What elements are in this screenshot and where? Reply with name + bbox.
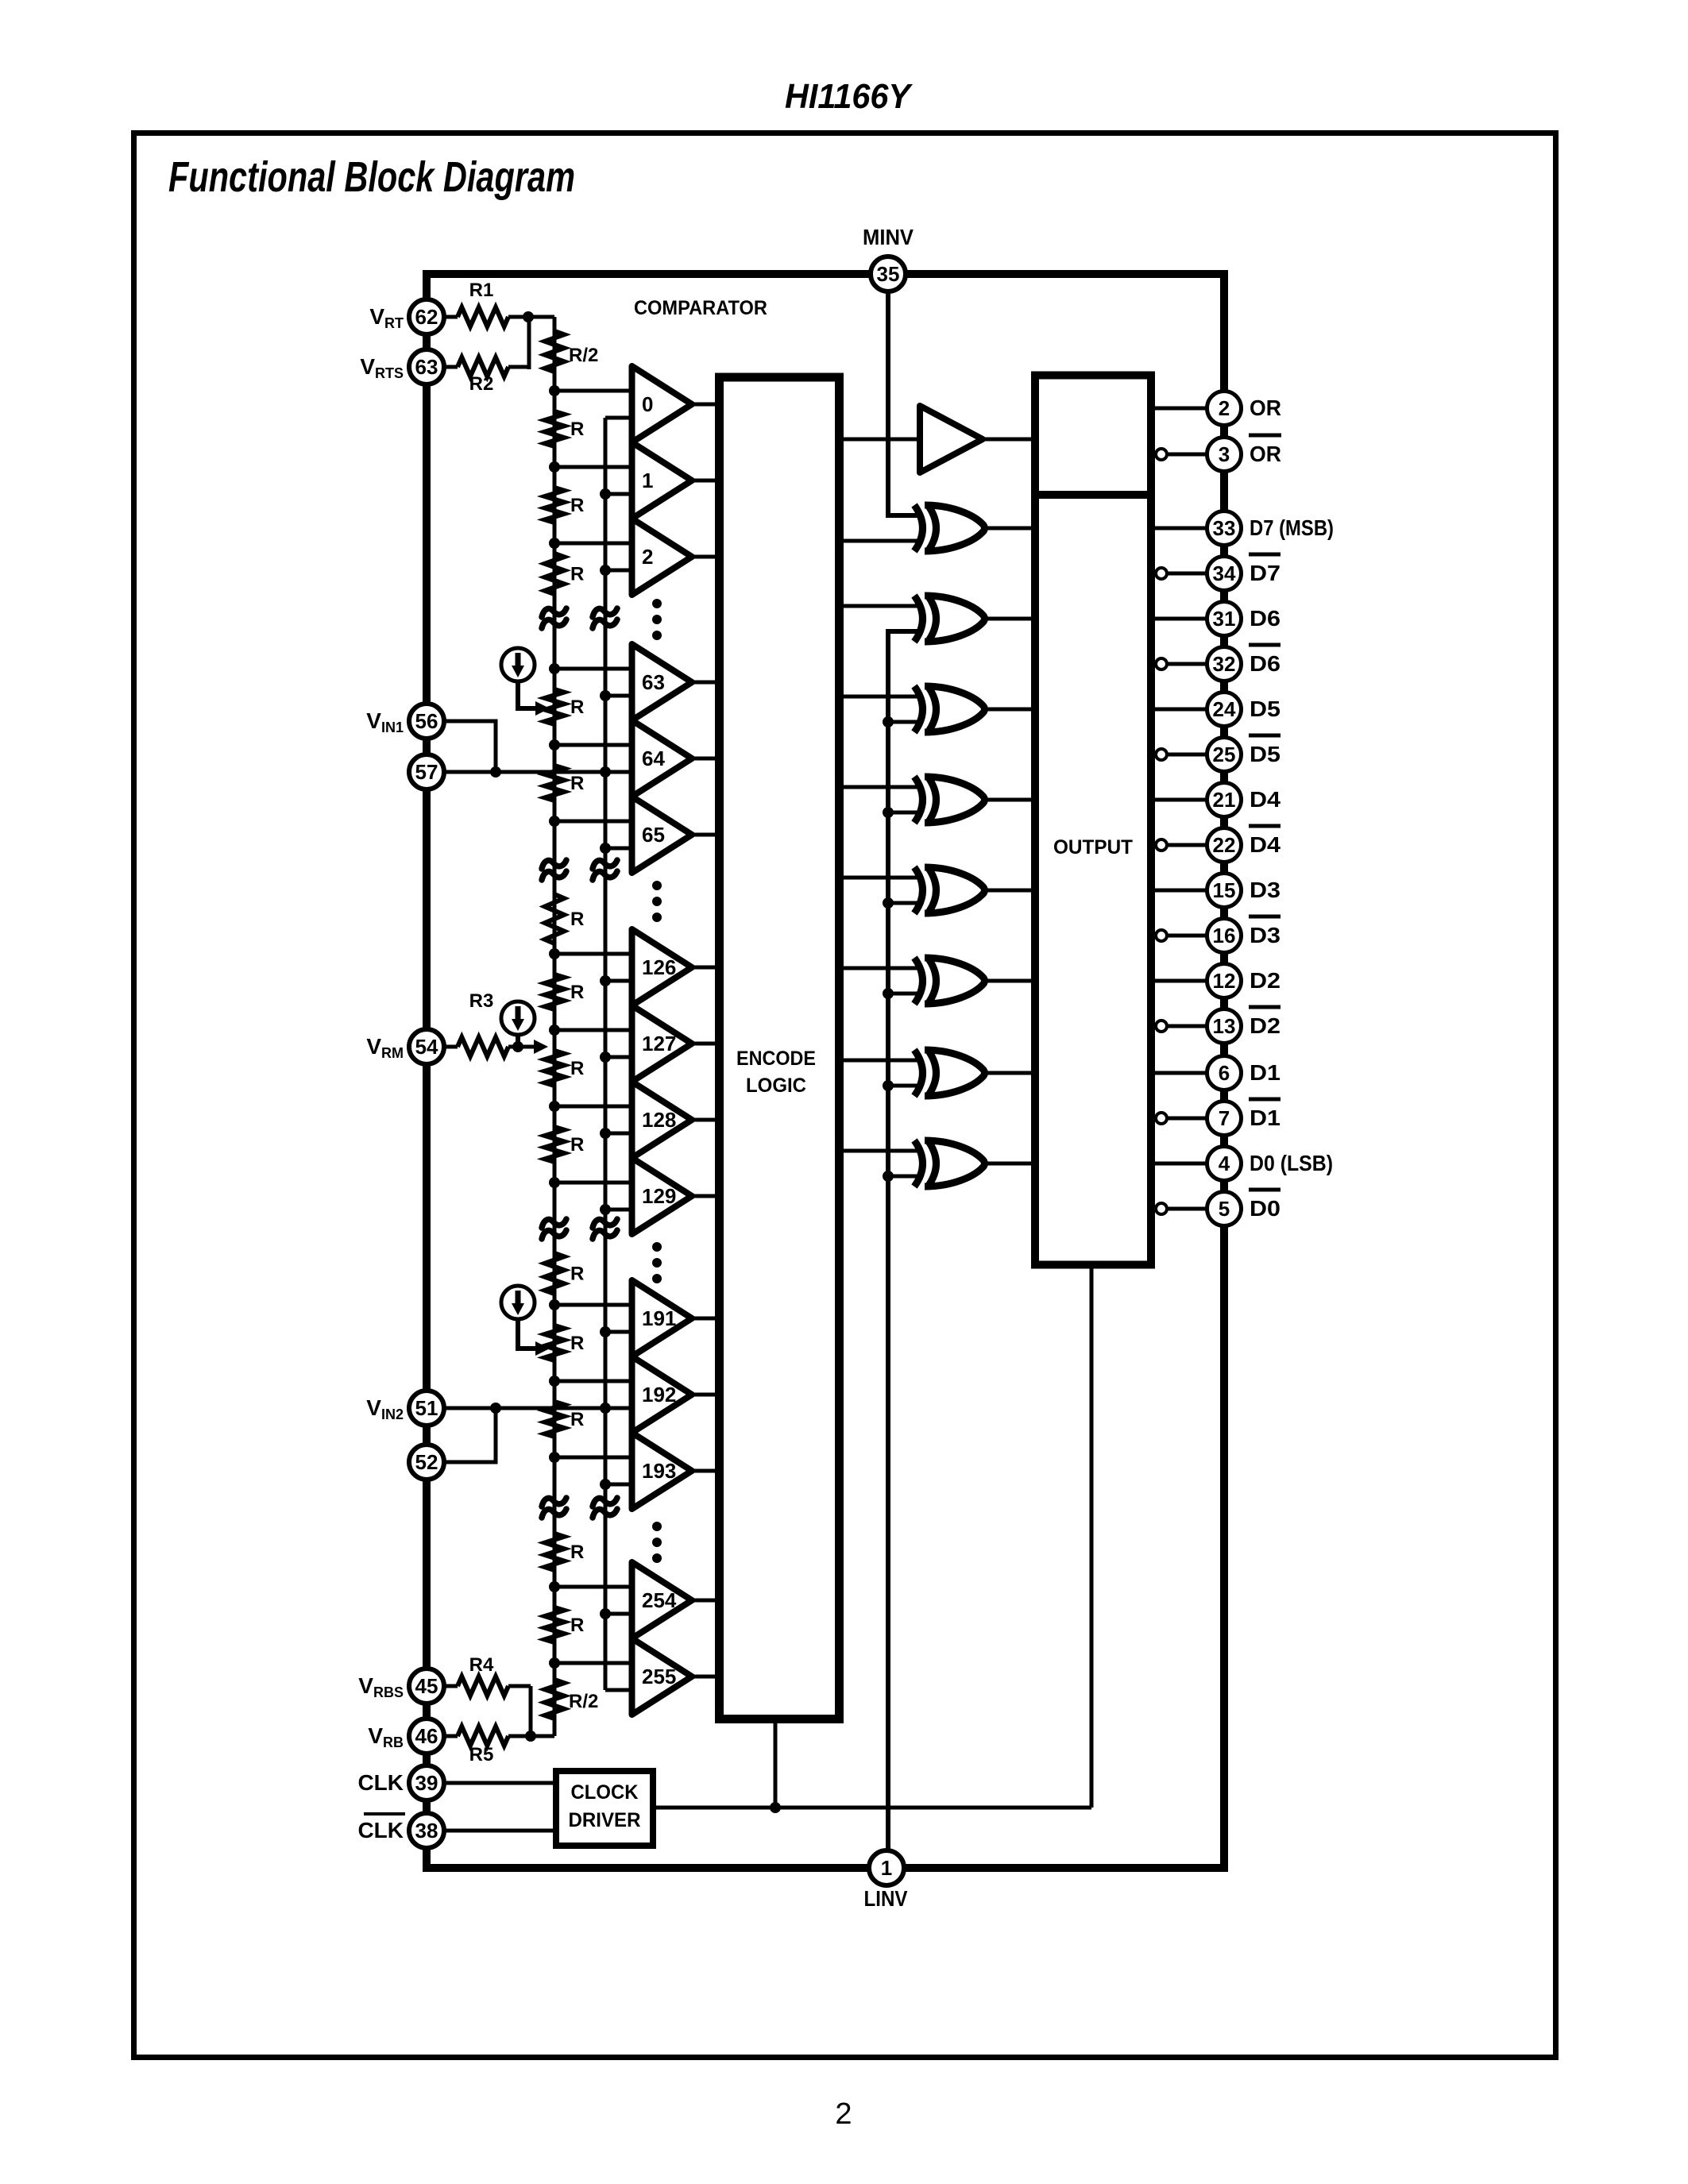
svg-text:33: 33	[1213, 516, 1236, 540]
block ENCODE LOGIC	[720, 377, 840, 1719]
svg-text:D1: D1	[1250, 1106, 1280, 1130]
comparator group bar	[629, 1562, 635, 1715]
wire comparator 2 output	[692, 555, 717, 559]
svg-text:16: 16	[1213, 924, 1236, 947]
ellipsis dots between comparator groups	[652, 599, 662, 608]
wire comparator 254 output	[692, 1599, 717, 1603]
svg-text:34: 34	[1213, 561, 1236, 585]
node LINV tap	[883, 897, 894, 909]
svg-text:25: 25	[1213, 743, 1236, 766]
svg-text:D1: D1	[1250, 1060, 1280, 1085]
resistor R (ladder)	[545, 411, 564, 446]
wire junction to ladder bottom	[531, 1734, 554, 1738]
pin 57	[409, 754, 444, 789]
pin 4 D0 (LSB)	[1207, 1147, 1242, 1181]
svg-text:57: 57	[415, 760, 438, 784]
node ladder tap	[549, 1452, 560, 1463]
svg-text:D4: D4	[1250, 787, 1280, 812]
node Vin tap	[600, 843, 611, 854]
wire ladder tap to comparator	[554, 1661, 632, 1665]
wire: ladder spine	[553, 317, 557, 1736]
wire MINV to XOR D7	[888, 291, 921, 515]
svg-text:LOGIC: LOGIC	[746, 1075, 806, 1097]
pin 12 D2	[1207, 964, 1242, 998]
comparator group bar	[629, 644, 635, 873]
wire: Vin bus	[604, 418, 608, 1690]
wire comparator 0 output	[692, 403, 717, 407]
svg-text:54: 54	[415, 1035, 438, 1059]
wire ladder tap to comparator	[554, 1585, 632, 1589]
svg-text:R5: R5	[469, 1744, 494, 1765]
node ladder tap	[549, 1101, 560, 1112]
block OUTPUT	[1035, 495, 1151, 1265]
pin 3 OR bar	[1207, 438, 1242, 472]
wire ladder tap to comparator	[554, 1181, 632, 1185]
wire inputs XOR D2	[840, 967, 922, 970]
svg-text:ENCODE: ENCODE	[736, 1048, 816, 1070]
wire pin 57 to Vin bus	[445, 770, 605, 774]
comparator group bar	[629, 1280, 635, 1509]
wire encode to OR buffer	[840, 438, 921, 442]
inverter bubble pin 13	[1156, 1021, 1167, 1032]
svg-text:OR: OR	[1250, 442, 1281, 466]
svg-text:255: 255	[642, 1665, 676, 1688]
pin 63 VRTS	[409, 349, 444, 384]
svg-text:OR: OR	[1250, 396, 1281, 420]
pin 33 D7 (MSB)	[1207, 511, 1242, 546]
wire output to pin 12	[1151, 979, 1207, 983]
inverter bubble pin 22	[1156, 839, 1167, 851]
block OR output latch	[1035, 376, 1151, 496]
node Vin tap	[600, 975, 611, 986]
wiper arrow at VRM	[534, 1040, 548, 1054]
svg-text:45: 45	[415, 1674, 438, 1698]
node ladder tap	[549, 948, 560, 959]
xor gate D4	[914, 777, 923, 823]
svg-text:R1: R1	[469, 280, 494, 301]
comparator 191	[632, 1280, 693, 1356]
inverter bubble pin 25	[1156, 749, 1167, 760]
wire comparator 255 output	[692, 1675, 717, 1679]
wire comparator 192 output	[692, 1393, 717, 1397]
node Vin tap	[600, 1128, 611, 1139]
svg-text:191: 191	[642, 1306, 676, 1330]
svg-text:31: 31	[1213, 607, 1236, 631]
wire Vin bus to comparator	[605, 1406, 632, 1410]
inverter bubble pin 16	[1156, 930, 1167, 941]
comparator 126	[632, 929, 693, 1005]
node ladder tap	[549, 816, 560, 827]
svg-text:D2: D2	[1250, 1013, 1280, 1038]
buffer OR driver	[920, 406, 983, 473]
page border frame	[134, 133, 1556, 2058]
svg-text:65: 65	[642, 823, 665, 847]
node ladder tap	[549, 385, 560, 396]
svg-text:R: R	[570, 419, 584, 440]
pin 31 D6	[1207, 602, 1242, 636]
resistor R (ladder)	[545, 1127, 564, 1162]
comparator 63	[632, 644, 693, 720]
pin 15 D3	[1207, 874, 1242, 908]
wire Vin bus to comparator	[605, 1330, 632, 1334]
svg-text:64: 64	[642, 747, 665, 770]
node: R4/R5 junction	[525, 1731, 536, 1742]
pin 39 CLK	[409, 1765, 444, 1800]
wire ladder tap to comparator	[554, 1379, 632, 1383]
svg-text:2: 2	[1219, 396, 1230, 420]
resistor R (ladder)	[545, 1534, 564, 1570]
xor gate D2	[914, 958, 923, 1004]
comparator 127	[632, 1005, 693, 1082]
svg-text:35: 35	[877, 262, 900, 286]
wire ladder tap to comparator	[554, 1303, 632, 1307]
wire XOR D2 output	[987, 979, 1035, 983]
svg-text:R: R	[570, 696, 584, 718]
svg-text:D7 (MSB): D7 (MSB)	[1250, 515, 1334, 540]
wire Vin bus to comparator	[605, 1688, 632, 1692]
node ladder tap	[549, 1299, 560, 1310]
wire Vin bus to comparator	[605, 694, 632, 698]
wire R2 to junction	[527, 317, 531, 369]
pin 7 D1 bar	[1207, 1102, 1242, 1136]
pin 16 D3 bar	[1207, 919, 1242, 953]
svg-text:6: 6	[1219, 1061, 1230, 1085]
svg-text:3: 3	[1219, 442, 1230, 466]
wire ladder tap to comparator	[554, 743, 632, 747]
svg-text:R3: R3	[469, 990, 494, 1012]
svg-text:R4: R4	[469, 1654, 494, 1676]
svg-text:D3: D3	[1250, 923, 1280, 947]
pin 46 VRB	[409, 1719, 444, 1754]
wire ladder tap to comparator	[554, 1028, 632, 1032]
break symbol on ladder	[542, 1219, 566, 1228]
inverter bubble pin 7	[1156, 1113, 1167, 1124]
svg-text:52: 52	[415, 1450, 438, 1474]
wire pin 38 to clock driver	[445, 1829, 556, 1833]
wire: top supply bus	[423, 270, 1228, 278]
wire ladder tap to comparator	[554, 820, 632, 824]
wire ladder tap to comparator	[554, 1105, 632, 1109]
break symbol on ladder	[542, 860, 566, 869]
pin 54 VRM	[409, 1029, 444, 1064]
inverter bubble pin 34	[1156, 568, 1167, 579]
node LINV tap	[883, 807, 894, 818]
wire ladder tap to comparator	[554, 667, 632, 671]
wire inputs XOR D5	[840, 695, 922, 699]
inverter bubble pin 3	[1156, 449, 1167, 460]
break symbol on Vin bus	[593, 608, 617, 617]
xor gate D3	[914, 867, 923, 913]
svg-text:24: 24	[1213, 697, 1236, 721]
node ladder tap	[549, 538, 560, 549]
xor gate D0	[914, 1140, 923, 1187]
resistor R (ladder)	[545, 894, 564, 943]
svg-text:R: R	[570, 909, 584, 930]
wire output to pin 2	[1151, 407, 1207, 411]
wire Vin bus to comparator	[605, 1612, 632, 1616]
current source 3	[501, 1286, 535, 1319]
pin 32 D6 bar	[1207, 647, 1242, 681]
current source 2 (VRM)	[501, 1001, 535, 1035]
wire output to pin 6	[1151, 1071, 1207, 1075]
wire XOR D3 output	[987, 889, 1035, 893]
wire Vin bus to comparator	[605, 770, 632, 774]
comparator 255	[632, 1638, 693, 1715]
wire Vin bus to comparator	[605, 416, 632, 420]
svg-text:D3: D3	[1250, 878, 1280, 902]
node ladder tap	[549, 1177, 560, 1188]
wire ladder tap to comparator	[554, 952, 632, 956]
wire inputs XOR D1	[840, 1059, 922, 1063]
wire: left input bus	[423, 270, 431, 1872]
resistor R (ladder)	[545, 488, 564, 523]
svg-text:63: 63	[415, 355, 438, 379]
wire XOR D7 output	[987, 527, 1035, 531]
comparator group bar	[629, 366, 635, 595]
wire clock to encode logic	[774, 1719, 778, 1808]
wire Vin bus to comparator	[605, 1483, 632, 1487]
node Vin2 join	[490, 1403, 501, 1414]
pin 62 VRT	[409, 299, 444, 334]
node ladder tap	[549, 1581, 560, 1592]
break symbol on Vin bus	[593, 1498, 617, 1507]
svg-text:254: 254	[642, 1588, 677, 1612]
wire output to pin 31	[1151, 617, 1207, 621]
svg-text:R: R	[570, 1542, 584, 1563]
svg-text:OUTPUT: OUTPUT	[1053, 836, 1133, 859]
node Vin tap	[600, 1326, 611, 1337]
wire comparator 1 output	[692, 479, 717, 483]
wire inputs XOR D4	[840, 785, 922, 789]
pin 2 OR	[1207, 392, 1242, 426]
svg-text:R2: R2	[469, 373, 494, 395]
svg-text:R: R	[570, 982, 584, 1003]
svg-text:21: 21	[1213, 788, 1236, 812]
wire Vin bus to comparator	[605, 1208, 632, 1212]
svg-text:D2: D2	[1250, 968, 1280, 993]
comparator 1	[632, 442, 693, 519]
resistor R5	[445, 1734, 458, 1738]
svg-text:56: 56	[415, 709, 438, 733]
wire comparator 65 output	[692, 833, 717, 837]
node clock branch	[770, 1802, 781, 1813]
wire inputs XOR D0	[840, 1149, 922, 1153]
comparator 64	[632, 720, 693, 797]
node Vin tap	[600, 1204, 611, 1215]
resistor R/2 bottom	[545, 1680, 564, 1719]
svg-text:63: 63	[642, 670, 665, 694]
svg-text:CLOCK: CLOCK	[571, 1781, 639, 1804]
comparator 128	[632, 1082, 693, 1158]
svg-text:R: R	[570, 564, 584, 585]
wire output to pin 33	[1151, 527, 1207, 531]
node Vin tap	[600, 1403, 611, 1414]
wire comparator 63 output	[692, 681, 717, 685]
wire inputs XOR D7	[840, 539, 922, 543]
pin 22 D4 bar	[1207, 828, 1242, 862]
svg-text:R: R	[570, 1058, 584, 1079]
pin 34 D7 bar	[1207, 557, 1242, 591]
svg-text:D6: D6	[1250, 606, 1280, 631]
node ladder tap	[549, 1024, 560, 1036]
resistor R2	[445, 365, 458, 369]
xor gate D7	[914, 505, 923, 551]
wire XOR D6 output	[987, 617, 1035, 621]
wire ladder tap to comparator	[554, 1456, 632, 1460]
svg-text:22: 22	[1213, 833, 1236, 857]
svg-text:CLK: CLK	[357, 1818, 404, 1843]
svg-text:R/2: R/2	[569, 345, 598, 366]
svg-text:5: 5	[1219, 1197, 1230, 1221]
comparator 2	[632, 519, 693, 595]
node ladder tap	[549, 739, 560, 751]
wire XOR D0 output	[987, 1162, 1035, 1166]
node: R3 junction	[512, 1041, 523, 1052]
resistor R1	[445, 315, 458, 319]
pin 35 MINV	[871, 257, 906, 291]
pin 45 VRBS	[409, 1669, 444, 1704]
svg-text:R: R	[570, 1333, 584, 1354]
svg-text:MINV: MINV	[863, 225, 914, 249]
comparator 193	[632, 1433, 693, 1509]
wire comparator 191 output	[692, 1317, 717, 1321]
wire ladder tap to comparator	[554, 465, 632, 469]
node Vin tap	[600, 565, 611, 576]
inverter bubble pin 32	[1156, 658, 1167, 669]
resistor R3	[445, 1045, 458, 1049]
wire output to pin 4	[1151, 1162, 1207, 1166]
svg-text:R: R	[570, 495, 584, 516]
pin 5 D0 bar	[1207, 1192, 1242, 1226]
svg-text:D6: D6	[1250, 651, 1280, 676]
svg-text:4: 4	[1219, 1152, 1230, 1175]
svg-text:15: 15	[1213, 878, 1236, 902]
svg-text:128: 128	[642, 1108, 676, 1132]
resistor R (ladder)	[545, 766, 564, 801]
svg-text:13: 13	[1213, 1014, 1236, 1038]
comparator 0	[632, 366, 693, 442]
resistor R (ladder)	[545, 689, 564, 724]
wire pin 51 to Vin bus	[445, 1406, 605, 1410]
svg-text:126: 126	[642, 955, 676, 979]
svg-text:12: 12	[1213, 969, 1236, 993]
pin 13 D2 bar	[1207, 1009, 1242, 1044]
wire: bottom bus	[423, 1864, 1228, 1872]
wire LINV column	[888, 631, 921, 1868]
comparator 65	[632, 797, 693, 873]
svg-text:R: R	[570, 1264, 584, 1285]
resistor R (ladder)	[545, 1607, 564, 1642]
svg-text:HI1166Y: HI1166Y	[785, 77, 913, 116]
node Vin tap	[600, 1608, 611, 1619]
svg-text:DRIVER: DRIVER	[569, 1809, 641, 1831]
svg-text:1: 1	[881, 1856, 892, 1880]
wire comparator 129 output	[692, 1194, 717, 1198]
node ladder tap	[549, 461, 560, 473]
svg-text:62: 62	[415, 305, 438, 329]
svg-text:D5: D5	[1250, 696, 1280, 721]
wire Vin bus to comparator	[605, 569, 632, 573]
svg-text:D0: D0	[1250, 1196, 1280, 1221]
node Vin1 join	[490, 766, 501, 778]
wire Vin bus to comparator	[605, 979, 632, 983]
resistor R (ladder)	[545, 554, 564, 594]
wire XOR D1 output	[987, 1071, 1035, 1075]
svg-text:2: 2	[642, 545, 653, 569]
wire Vin bus to comparator	[605, 492, 632, 496]
pin 56 VIN1	[409, 704, 444, 739]
wire: right pin column bus	[1220, 270, 1228, 1872]
node LINV tap	[883, 716, 894, 727]
wire XOR D4 output	[987, 798, 1035, 802]
node Vin tap	[600, 766, 611, 778]
wire clock to output block	[1090, 1265, 1094, 1808]
resistor R (ladder)	[545, 1253, 564, 1294]
svg-text:D0 (LSB): D0 (LSB)	[1250, 1151, 1333, 1175]
svg-text:193: 193	[642, 1459, 676, 1483]
svg-text:D4: D4	[1250, 832, 1280, 857]
wire comparator 127 output	[692, 1042, 717, 1046]
svg-text:Functional Block Diagram: Functional Block Diagram	[168, 153, 575, 201]
node ladder tap	[549, 663, 560, 674]
svg-text:32: 32	[1213, 652, 1236, 676]
wire XOR D5 output	[987, 708, 1035, 712]
svg-text:R: R	[570, 773, 584, 794]
wire Vin bus to comparator	[605, 1055, 632, 1059]
wire comparator 128 output	[692, 1118, 717, 1122]
svg-text:192: 192	[642, 1383, 676, 1406]
break symbol on Vin bus	[593, 1219, 617, 1228]
wire output to pin 24	[1151, 708, 1207, 712]
pin 1 LINV	[869, 1850, 904, 1885]
svg-text:51: 51	[415, 1396, 438, 1420]
xor gate D5	[914, 686, 923, 732]
wire Vin bus to comparator	[605, 847, 632, 851]
node LINV tap	[883, 1080, 894, 1091]
pin 52	[409, 1445, 444, 1480]
inverter bubble pin 5	[1156, 1203, 1167, 1214]
node: R1/R2 junction	[523, 311, 534, 322]
comparator group bar	[629, 929, 635, 1234]
break symbol on ladder	[542, 1498, 566, 1507]
pin 6 D1	[1207, 1056, 1242, 1090]
resistor R4	[445, 1684, 458, 1688]
pin 21 D4	[1207, 783, 1242, 817]
wire Vin bus to comparator	[605, 1132, 632, 1136]
node Vin tap	[600, 690, 611, 701]
node Vin tap	[600, 488, 611, 500]
svg-text:R: R	[570, 1615, 584, 1636]
svg-text:39: 39	[415, 1771, 438, 1795]
wire output to pin 15	[1151, 889, 1207, 893]
wire R4 to junction	[529, 1686, 533, 1736]
node LINV tap	[883, 1171, 894, 1182]
resistor R (ladder)	[545, 1325, 564, 1360]
wire buffer to output block	[983, 438, 1035, 442]
wire ladder tap to comparator	[554, 542, 632, 546]
wire comparator 64 output	[692, 757, 717, 761]
resistor R/2 top	[545, 331, 564, 372]
wire output to pin 21	[1151, 798, 1207, 802]
wire pin 52 to Vin2 node	[445, 1408, 496, 1462]
wire ladder tap to comparator	[554, 389, 632, 393]
svg-text:127: 127	[642, 1032, 676, 1055]
wire inputs XOR D3	[840, 876, 922, 880]
xor gate D1	[914, 1050, 923, 1096]
pin 25 D5 bar	[1207, 738, 1242, 772]
comparator 254	[632, 1562, 693, 1638]
svg-text:LINV: LINV	[864, 1886, 908, 1911]
